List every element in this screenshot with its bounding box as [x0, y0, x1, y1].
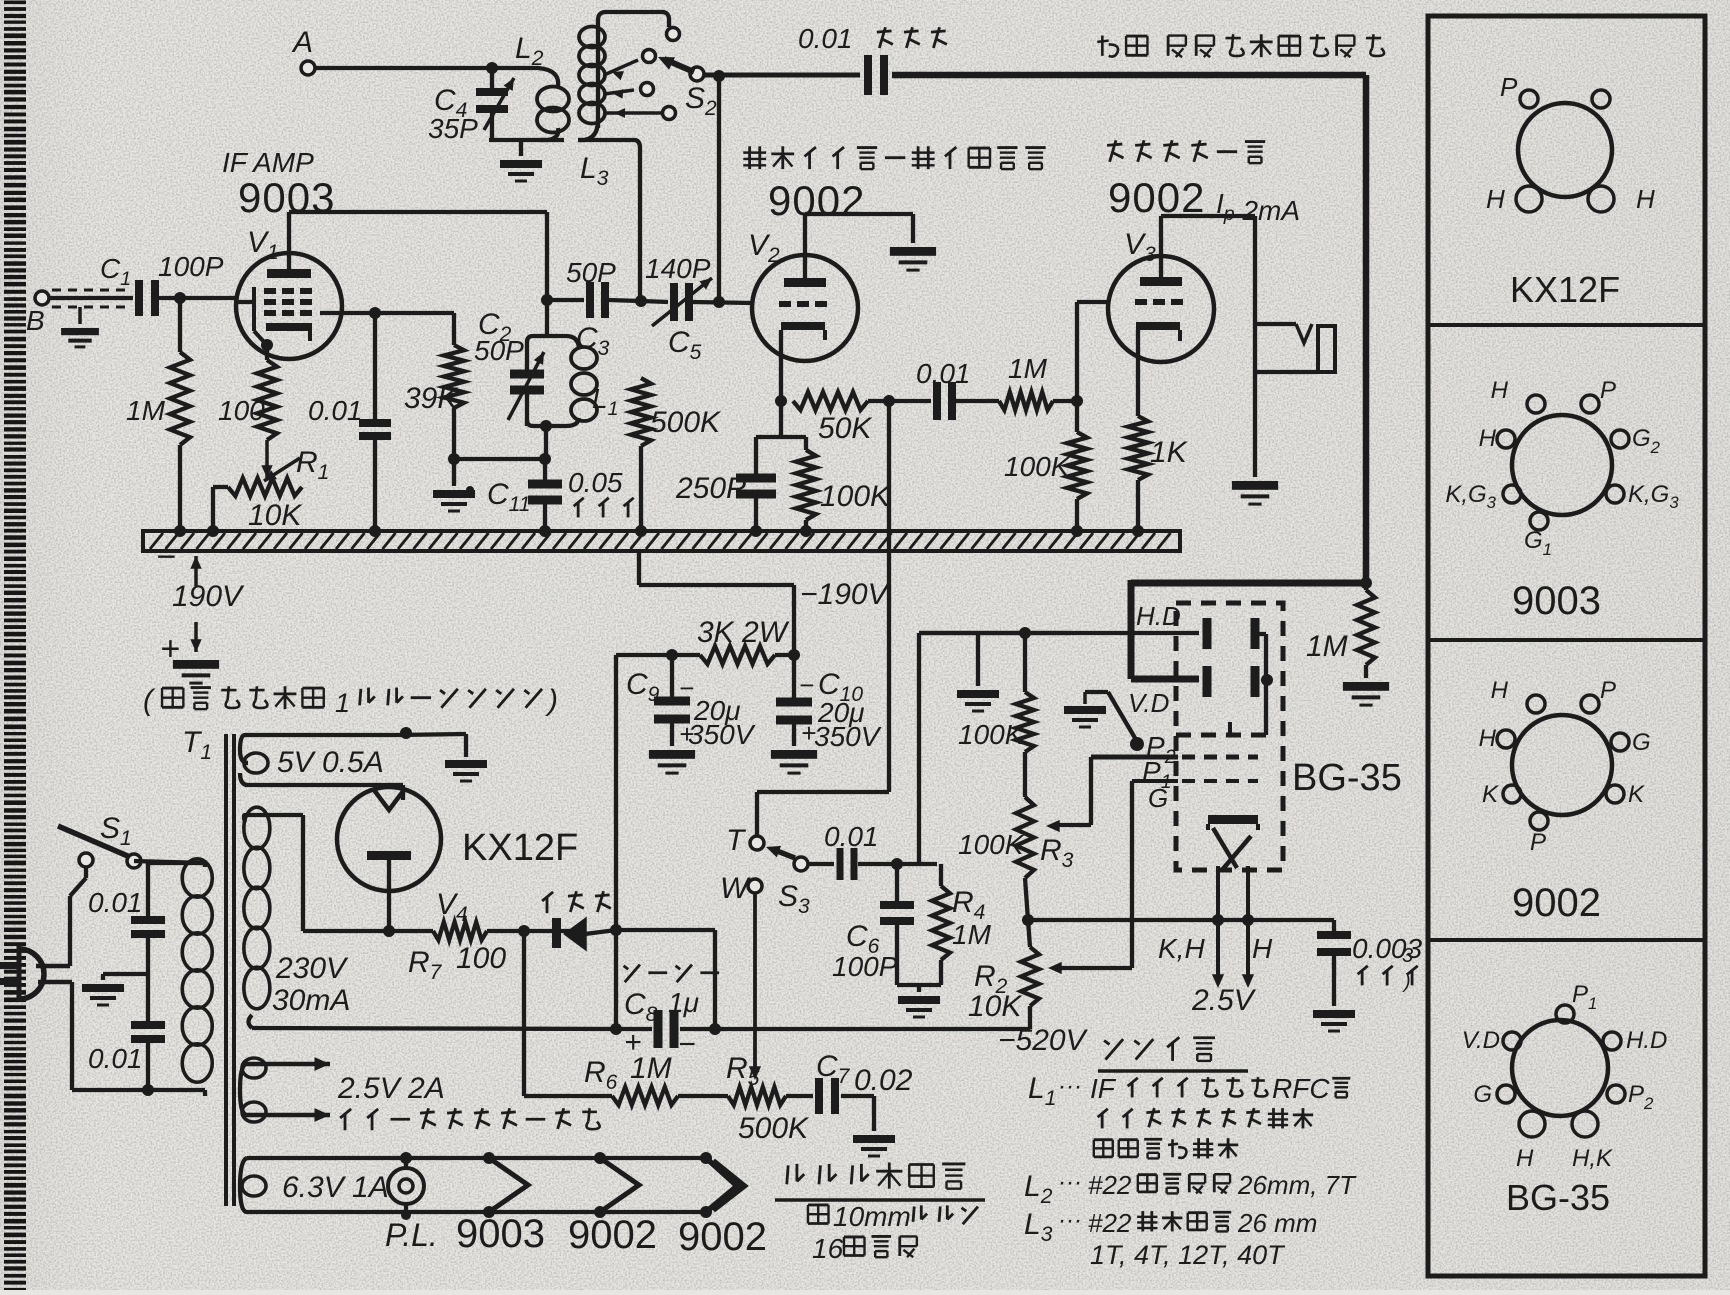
svg-text:A: A [291, 26, 313, 59]
svg-text:350V: 350V [688, 719, 756, 750]
svg-text:10K: 10K [248, 499, 303, 532]
svg-text:26mm, 7T: 26mm, 7T [1237, 1170, 1357, 1200]
svg-text:1μ: 1μ [668, 987, 699, 1018]
svg-text:P: P [1530, 829, 1546, 856]
svg-text:IF: IF [1090, 1073, 1117, 1104]
svg-text:P.L.: P.L. [385, 1217, 438, 1253]
svg-text:0.05: 0.05 [568, 467, 623, 498]
svg-text:P: P [1600, 677, 1616, 704]
svg-text:3: 3 [1402, 945, 1413, 967]
svg-text:G: G [1473, 1081, 1492, 1108]
svg-text:500K: 500K [650, 406, 722, 439]
svg-text:P: P [1500, 72, 1518, 102]
svg-text:230V: 230V [275, 952, 349, 985]
svg-text:H.D: H.D [1626, 1027, 1667, 1054]
svg-text:H: H [1479, 725, 1497, 752]
svg-text:190V: 190V [172, 580, 245, 613]
svg-text:100K: 100K [1004, 451, 1071, 482]
svg-text:B: B [26, 305, 45, 336]
svg-text:V.D: V.D [1128, 688, 1169, 718]
svg-text:50P: 50P [474, 335, 524, 366]
svg-text:···: ··· [1058, 1169, 1082, 1196]
svg-text:···: ··· [1058, 1073, 1082, 1100]
svg-text:−: − [678, 1028, 696, 1061]
svg-text:2.5V 2A: 2.5V 2A [337, 1072, 445, 1105]
svg-text:BG-35: BG-35 [1506, 1177, 1610, 1218]
svg-text:K: K [1482, 781, 1499, 808]
svg-text:−: − [679, 673, 694, 703]
svg-text:0.01: 0.01 [88, 887, 143, 918]
svg-text:1M: 1M [630, 1052, 672, 1085]
svg-text:16: 16 [812, 1233, 844, 1264]
svg-text:0.01: 0.01 [916, 358, 971, 389]
svg-text:1M: 1M [1306, 630, 1348, 663]
svg-text:H.D: H.D [1136, 601, 1181, 631]
svg-text:P: P [1600, 377, 1616, 404]
svg-text:H: H [1491, 377, 1509, 404]
svg-text:H: H [1636, 184, 1655, 214]
svg-text:100K: 100K [958, 829, 1025, 860]
svg-text:0.01: 0.01 [798, 23, 853, 54]
svg-text:H: H [1516, 1145, 1534, 1172]
svg-text:KX12F: KX12F [1510, 269, 1620, 310]
svg-text:−190V: −190V [800, 578, 891, 611]
svg-text:39K: 39K [404, 382, 459, 415]
svg-text:H: H [1479, 425, 1497, 452]
svg-text:···: ··· [1058, 1207, 1082, 1234]
svg-text:0.01: 0.01 [88, 1043, 143, 1074]
svg-text:G: G [1632, 729, 1651, 756]
svg-text:100: 100 [456, 942, 506, 975]
svg-text:H: H [1252, 933, 1273, 964]
svg-text:30mA: 30mA [272, 984, 350, 1017]
svg-text:2.5V: 2.5V [1191, 984, 1257, 1017]
svg-text:100P: 100P [832, 951, 898, 982]
svg-text:1: 1 [335, 688, 350, 718]
svg-text:9002: 9002 [678, 1215, 767, 1259]
svg-text:#22: #22 [1088, 1170, 1132, 1200]
svg-text:9003: 9003 [1512, 579, 1601, 623]
svg-text:10K: 10K [968, 990, 1023, 1023]
svg-text:): ) [1402, 971, 1411, 993]
svg-text:1M: 1M [1008, 353, 1048, 384]
svg-text:1K: 1K [1150, 436, 1189, 469]
svg-text:1M: 1M [952, 919, 992, 950]
svg-text:10mm: 10mm [833, 1201, 911, 1232]
svg-text:1M: 1M [126, 395, 166, 426]
svg-text:9002: 9002 [768, 177, 865, 224]
svg-text:9003: 9003 [456, 1212, 545, 1256]
svg-text:9002: 9002 [1512, 881, 1601, 925]
svg-text:RFC: RFC [1272, 1073, 1330, 1104]
svg-text:100: 100 [218, 395, 265, 426]
svg-text:100K: 100K [958, 719, 1025, 750]
svg-text:K: K [1628, 781, 1645, 808]
svg-text:0.01: 0.01 [308, 395, 363, 426]
svg-text:−: − [799, 670, 814, 700]
svg-text:6.3V 1A: 6.3V 1A [282, 1171, 389, 1204]
svg-text:250P: 250P [675, 472, 746, 505]
svg-text:0.02: 0.02 [854, 1064, 913, 1097]
svg-text:3K 2W: 3K 2W [697, 616, 790, 649]
svg-text:140P: 140P [645, 253, 711, 284]
svg-text:350V: 350V [814, 721, 882, 752]
svg-text:KX12F: KX12F [462, 827, 578, 869]
svg-text:W: W [720, 872, 751, 905]
svg-text:−: − [156, 538, 176, 576]
svg-text:26 mm: 26 mm [1237, 1208, 1317, 1238]
svg-text:1T, 4T, 12T, 40T: 1T, 4T, 12T, 40T [1090, 1240, 1286, 1270]
svg-text:H: H [1486, 184, 1505, 214]
svg-text:G: G [1148, 783, 1168, 813]
svg-text:K,H: K,H [1158, 933, 1205, 964]
svg-text:50K: 50K [818, 412, 873, 445]
svg-text:5V 0.5A: 5V 0.5A [277, 746, 384, 779]
svg-text:V.D: V.D [1462, 1027, 1500, 1054]
svg-text:100K: 100K [820, 480, 892, 513]
svg-text:0.01: 0.01 [824, 821, 879, 852]
svg-text:T: T [726, 824, 747, 857]
svg-text:35P: 35P [428, 113, 478, 144]
svg-text:H,K: H,K [1572, 1145, 1613, 1172]
svg-text:H: H [1491, 677, 1509, 704]
svg-text:500K: 500K [738, 1112, 810, 1145]
svg-text:9002: 9002 [568, 1213, 657, 1257]
svg-text:50P: 50P [566, 257, 616, 288]
svg-text:#22: #22 [1088, 1208, 1132, 1238]
svg-text:100P: 100P [158, 251, 224, 282]
svg-text:BG-35: BG-35 [1292, 757, 1402, 799]
